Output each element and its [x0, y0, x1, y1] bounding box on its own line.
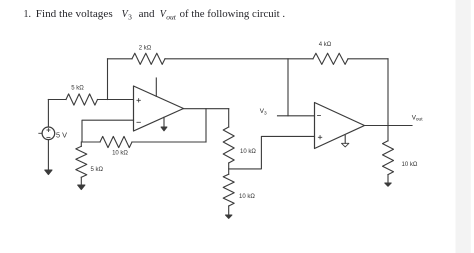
source polarity minus [47, 136, 50, 138]
svg-text:10 kΩ: 10 kΩ [239, 194, 255, 200]
wire 5k to U1 non-inverting input [98, 99, 134, 101]
svg-text:10 kΩ: 10 kΩ [112, 150, 128, 156]
svg-text:3: 3 [128, 13, 132, 22]
U2 plus mark [318, 136, 322, 139]
svg-text:4 kΩ: 4 kΩ [319, 42, 332, 48]
source polarity plus [47, 129, 50, 132]
U1 power pin [155, 78, 157, 96]
resistor 2 kOhm [132, 53, 165, 64]
wire node to 5k vertical [80, 142, 82, 146]
resistor 5 kOhm horizontal [66, 94, 98, 105]
op-amp U2 [315, 103, 365, 149]
wire output corner down [228, 109, 230, 127]
op-amp U1 [134, 86, 184, 131]
wire junction to U2 non-inverting input [229, 136, 315, 169]
ground under 5k [78, 185, 85, 190]
wire U1 inverting input [82, 120, 134, 142]
stray tick left of source [39, 132, 41, 134]
wire top-left vertical from +input node to top rail [107, 59, 109, 100]
wire U2 inverting input stub (node V3) [278, 115, 315, 117]
wire junction drop to U2 inverting input [287, 59, 289, 116]
resistor 10 kOhm right [383, 141, 394, 175]
wire source bottom lead [47, 140, 49, 170]
svg-text:out: out [166, 13, 177, 22]
wire source top lead [47, 100, 49, 128]
U1 plus mark [137, 99, 141, 102]
ground under U1 [163, 117, 165, 127]
svg-text:10 kΩ: 10 kΩ [402, 162, 418, 168]
voltage source 5V circle [42, 127, 55, 140]
svg-text:5 V: 5 V [56, 130, 67, 139]
wire output right vertical down [387, 123, 389, 141]
U2 minus mark [318, 115, 321, 117]
svg-text:of the following circuit .: of the following circuit . [180, 9, 286, 20]
resistor 10 kOhm feedback [100, 136, 132, 147]
resistor 10 kOhm upper chain [223, 127, 234, 163]
wire U2 output [365, 125, 413, 127]
svg-text:Find the voltages: Find the voltages [36, 9, 113, 20]
wire feedback left segment [82, 141, 100, 143]
svg-text:5 kΩ: 5 kΩ [71, 86, 84, 92]
wire top rail left segment [108, 58, 133, 60]
svg-text:2 kΩ: 2 kΩ [139, 46, 152, 52]
ground under U2 [344, 135, 346, 143]
resistor 4 kOhm [313, 53, 348, 64]
U1 minus mark [137, 121, 141, 123]
ground under chain [226, 215, 232, 218]
wire chain to ground [228, 206, 230, 215]
wire U1 output [184, 108, 229, 110]
svg-text:1.: 1. [24, 9, 32, 20]
wire top rail right segment [348, 58, 388, 60]
svg-text:5 kΩ: 5 kΩ [91, 167, 104, 173]
title text [24, 9, 286, 22]
wire feedback right segment [132, 141, 206, 143]
svg-text:10 kΩ: 10 kΩ [240, 149, 256, 155]
wire chain middle [228, 163, 230, 174]
ground right [385, 183, 391, 186]
wire 5k to ground [80, 177, 82, 185]
wire right resistor to ground [387, 175, 389, 183]
ground under source [45, 170, 52, 175]
wire right vertical to U2 output [387, 59, 389, 123]
svg-text:and: and [139, 9, 155, 20]
wire top rail middle segment [165, 58, 313, 60]
resistor 10 kOhm lower chain [223, 174, 234, 206]
wire from source to 5k resistor [48, 99, 66, 101]
wire feedback vertical from U1 output [205, 109, 207, 142]
resistor 5 kOhm vertical [76, 146, 87, 177]
